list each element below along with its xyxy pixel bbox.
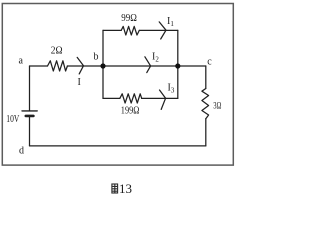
svg-text:13: 13 (119, 181, 132, 196)
svg-text:a: a (19, 56, 24, 67)
caption glyph tu (figure) (112, 184, 118, 193)
wire R2 to top-right corner (139, 29, 178, 31)
wire top-left to resistor R2 (103, 29, 121, 31)
wire bottom-left to resistor R3 (103, 97, 120, 99)
border frame (2, 4, 233, 166)
resistor R3 199ohm (120, 94, 142, 103)
svg-text:b: b (94, 52, 99, 63)
wire a down to battery (29, 66, 31, 111)
resistor R4 3ohm (202, 89, 209, 119)
wire node b down to bottom branch (102, 66, 104, 98)
arrow I2 (145, 57, 151, 73)
wire node c down to resistor R4 (205, 66, 207, 89)
wire middle branch b to junction (103, 65, 178, 67)
wire node b up to top branch (102, 30, 104, 66)
svg-text:99Ω: 99Ω (121, 13, 137, 24)
wire battery to node d (29, 116, 31, 146)
wire R4 to bottom-right (205, 119, 207, 146)
svg-text:d: d (19, 146, 24, 157)
bottom wire d to right (30, 145, 206, 147)
wire a to resistor R1 (30, 65, 48, 67)
svg-text:I: I (78, 77, 81, 88)
battery B1 long plate (22, 110, 37, 112)
wire R3 to bottom-right corner (142, 97, 178, 99)
resistor R1 2ohm (48, 61, 68, 71)
wire top branch down to node c junction (177, 30, 179, 66)
svg-text:c: c (207, 57, 212, 68)
node b junction dot (100, 63, 105, 68)
arrow I3 (160, 90, 166, 109)
wire R1 to node b (67, 65, 103, 67)
svg-text:3Ω: 3Ω (213, 101, 221, 111)
svg-text:10V: 10V (6, 114, 20, 125)
svg-text:2Ω: 2Ω (51, 46, 63, 57)
battery B1 short plate (26, 115, 34, 118)
arrow I1 (159, 22, 166, 39)
wire junction to node c corner (178, 65, 206, 67)
svg-text:199Ω: 199Ω (121, 106, 140, 117)
junction dot right (175, 63, 180, 68)
wire bottom branch up to junction (177, 66, 179, 98)
resistor R2 99ohm (121, 26, 139, 35)
arrow I (77, 57, 83, 74)
